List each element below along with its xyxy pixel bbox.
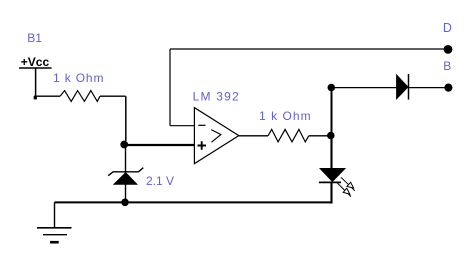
LED light arrow 1: [341, 177, 355, 191]
wire LED to ground rail: [330, 183, 332, 202]
pin blob at Vcc corner: [34, 96, 37, 100]
svg-text:B: B: [443, 59, 451, 73]
resistor R1: [60, 91, 100, 102]
wire feedback to - input: [170, 125, 194, 127]
wire zener to ground rail: [125, 185, 127, 201]
svg-text:2.1 V: 2.1 V: [146, 174, 174, 188]
svg-text:+Vcc: +Vcc: [21, 55, 50, 69]
junction node C: [327, 132, 335, 140]
junction on ground rail: [121, 199, 129, 207]
ground: [37, 202, 72, 242]
LED light arrow 2: [337, 183, 351, 197]
diode D1: [397, 74, 409, 100]
svg-text:1 k Ohm: 1 k Ohm: [53, 71, 104, 85]
wire ground rail: [55, 201, 333, 203]
wire down to junction: [125, 96, 127, 141]
junction node B branch: [328, 84, 336, 92]
wire node A to op-amp + input: [124, 144, 194, 146]
wire Vcc to R1: [35, 95, 61, 97]
op-amp U1: [194, 108, 238, 164]
wire R1 to node A: [100, 95, 126, 97]
wire junction to diode D1: [334, 87, 396, 89]
wire top rail to node D: [170, 48, 448, 50]
wire op-amp output to R2: [239, 135, 268, 137]
wire node C up to node B branch: [331, 90, 333, 135]
wire node A to zener: [125, 148, 127, 172]
zener diode Z1: [108, 168, 143, 185]
node B: [444, 84, 452, 92]
wire R2 to node C: [309, 135, 328, 137]
resistor R2: [268, 129, 309, 142]
junction node A: [120, 141, 128, 149]
node D: [444, 45, 453, 54]
wire feedback vertical: [169, 49, 171, 126]
wire diode D1 to node B: [409, 87, 447, 89]
LED D2: [319, 168, 345, 182]
svg-text:LM 392: LM 392: [193, 90, 240, 104]
svg-text:D: D: [443, 21, 452, 35]
svg-text:B1: B1: [27, 31, 42, 45]
power +Vcc terminal: [19, 68, 52, 96]
svg-text:1 k Ohm: 1 k Ohm: [259, 109, 312, 123]
wire node C to LED: [330, 136, 332, 169]
